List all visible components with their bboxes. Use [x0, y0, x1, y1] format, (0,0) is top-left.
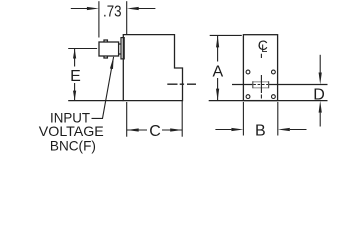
hole top-left [246, 70, 250, 74]
left view body outline [123, 35, 182, 101]
svg-text:L: L [261, 43, 267, 55]
svg-text:B: B [255, 123, 266, 140]
centerline left view step [167, 83, 196, 85]
connector rect [253, 82, 269, 88]
svg-text:BNC(F): BNC(F) [50, 138, 96, 154]
wire: bottom line left view (E ext + body bottom) [68, 100, 123, 102]
dimension A [210, 35, 242, 100]
BNC bayonet bump top [104, 40, 107, 42]
hole top-right [272, 70, 276, 74]
bottom long line [209, 100, 328, 102]
svg-text:.73: .73 [103, 4, 122, 21]
dim line [74, 49, 76, 101]
dim line left [215, 129, 231, 131]
ext line left [126, 102, 128, 137]
svg-text:D: D [313, 87, 325, 104]
svg-text:C: C [149, 123, 161, 140]
ext line left [242, 102, 244, 136]
flange horizontal line [232, 84, 328, 86]
right view box [209, 35, 328, 101]
svg-text:A: A [212, 64, 223, 81]
ext line right [181, 101, 183, 137]
ext line top [210, 34, 242, 36]
hole bottom-right [272, 95, 276, 99]
dimension E [68, 49, 97, 101]
leader INPUT [92, 57, 114, 119]
dim line right [290, 129, 307, 131]
dimension .73 [71, 1, 156, 37]
BNC barrel [99, 42, 119, 56]
arrow left [71, 8, 88, 10]
hole bottom-left [246, 95, 250, 99]
ext line 2 [126, 1, 128, 34]
lower arrow stem [319, 113, 321, 127]
upper arrow stem [319, 55, 321, 73]
dashed line through connector [253, 84, 268, 86]
svg-text:E: E [70, 68, 81, 85]
ext line right [277, 102, 279, 136]
dimension D [319, 55, 321, 127]
BNC flange [121, 38, 124, 59]
BNC neck [119, 44, 121, 54]
vertical centerline [260, 54, 262, 99]
dim line [127, 129, 183, 131]
ext line top [68, 48, 97, 50]
dimension B [215, 102, 306, 136]
dimension C [127, 101, 183, 137]
dim line [217, 35, 219, 100]
arrow right [138, 8, 155, 10]
BNC bayonet bump bottom [104, 56, 107, 58]
ext line 1 [98, 1, 100, 37]
